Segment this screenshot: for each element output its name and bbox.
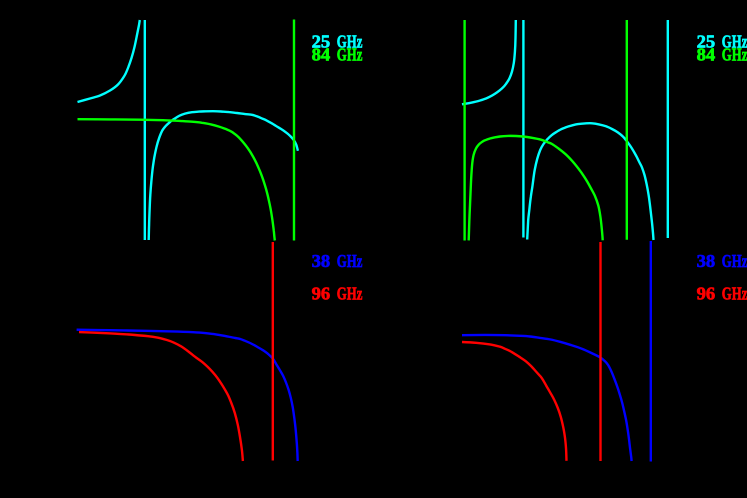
top-right panel: 84 GHz caustic vertical line 2 bbox=[626, 20, 628, 240]
svg-text:GHz: GHz bbox=[722, 251, 747, 271]
bottom-right legend: 38 GHz bbox=[697, 251, 747, 271]
top-right panel: 25 GHz caustic vertical line 1 bbox=[522, 20, 524, 238]
bottom-right panel: 96 GHz curve bbox=[462, 342, 567, 461]
top-left panel: 84 GHz curve bbox=[78, 119, 275, 240]
svg-text:96: 96 bbox=[312, 283, 331, 303]
top-right panel: 25 GHz caustic vertical line 2 bbox=[667, 20, 669, 238]
top-left panel: 25 GHz curve left branch bbox=[78, 20, 140, 102]
bottom-right panel: 38 GHz caustic vertical line bbox=[650, 241, 652, 462]
top-left panel: 25 GHz curve right branch bbox=[149, 111, 298, 240]
bottom-left panel: 96 GHz curve bbox=[79, 332, 243, 461]
svg-text:GHz: GHz bbox=[722, 283, 747, 303]
top-left panel: 25 GHz caustic vertical line bbox=[144, 20, 146, 240]
top-right panel: 84 GHz caustic vertical line 1 bbox=[463, 20, 465, 241]
bottom-left legend: 96 GHz bbox=[312, 283, 363, 303]
top-right legend: 84 GHz bbox=[697, 44, 747, 64]
svg-text:GHz: GHz bbox=[337, 283, 363, 303]
svg-text:GHz: GHz bbox=[337, 44, 363, 64]
svg-text:GHz: GHz bbox=[337, 251, 363, 271]
bottom-right panel: 38 GHz curve bbox=[462, 335, 632, 461]
bottom-left panel: 96 GHz caustic vertical line bbox=[272, 242, 274, 461]
top-right panel: 84 GHz curve bbox=[469, 136, 603, 241]
top-left legend: 25 GHz bbox=[312, 31, 363, 51]
svg-text:38: 38 bbox=[697, 251, 716, 271]
top-right legend: 25 GHz bbox=[697, 31, 747, 51]
bottom-left panel: 38 GHz curve bbox=[77, 330, 298, 461]
top-left panel: 84 GHz caustic vertical line bbox=[293, 20, 295, 241]
bottom-right legend: 96 GHz bbox=[697, 283, 747, 303]
svg-text:96: 96 bbox=[697, 283, 716, 303]
bottom-left legend: 38 GHz bbox=[312, 251, 363, 271]
svg-text:GHz: GHz bbox=[722, 44, 747, 64]
svg-text:84: 84 bbox=[697, 44, 716, 64]
top-left legend: 84 GHz bbox=[312, 44, 363, 64]
svg-text:84: 84 bbox=[312, 44, 331, 64]
bottom-right panel: 96 GHz caustic vertical line bbox=[599, 242, 601, 461]
svg-text:38: 38 bbox=[312, 251, 331, 271]
top-right panel: 25 GHz curve right branch bbox=[527, 123, 653, 240]
top-right panel: 25 GHz curve left branch bbox=[462, 20, 516, 104]
